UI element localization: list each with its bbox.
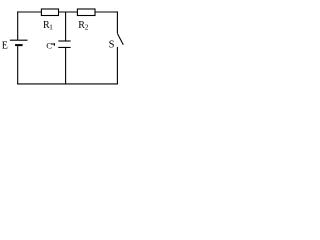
wire left side upper (to battery) xyxy=(17,11,19,40)
small mark right of C (tick) xyxy=(53,43,55,46)
wire from capacitor down to bottom xyxy=(65,47,67,84)
wire bottom side xyxy=(17,83,118,85)
svg-text:S: S xyxy=(109,39,115,50)
wire left side lower (battery to bottom) xyxy=(17,46,19,84)
svg-text:C: C xyxy=(46,41,52,51)
wire right side lower (switch to bottom) xyxy=(116,47,118,85)
wire from top node down to capacitor xyxy=(65,12,67,41)
svg-text:2: 2 xyxy=(85,23,89,32)
wire between R1 and R2 xyxy=(59,11,78,13)
switch S blade xyxy=(118,34,124,45)
resistor R2 xyxy=(77,9,95,16)
small mark right of C (dash) xyxy=(51,43,54,45)
svg-text:E: E xyxy=(2,41,8,52)
wire top-left segment xyxy=(17,11,41,13)
svg-text:1: 1 xyxy=(49,23,53,32)
wire top-right segment xyxy=(95,11,118,13)
capacitor C top plate xyxy=(58,40,70,42)
battery E long plate xyxy=(10,39,28,41)
capacitor C bottom plate xyxy=(58,46,70,48)
wire right side upper (to switch) xyxy=(116,11,118,33)
resistor R1 xyxy=(41,9,58,16)
battery E short thick plate xyxy=(15,44,23,46)
